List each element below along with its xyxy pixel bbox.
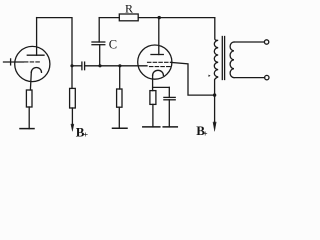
svg-text:+: + [83,129,88,139]
svg-text:C: C [109,37,117,51]
svg-text:+: + [203,129,208,139]
svg-text:R: R [125,1,133,15]
